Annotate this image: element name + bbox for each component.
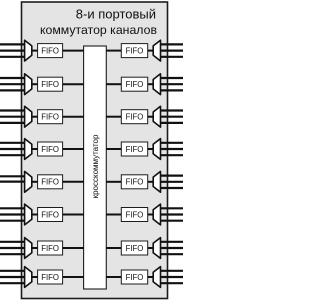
svg-text:FIFO: FIFO (126, 145, 144, 154)
wire FIFO F8b to demux M8b (148, 276, 154, 278)
output demux M3b (right port 3) (153, 106, 160, 127)
output demux M8b (right port 8) (153, 267, 160, 288)
input mux M7a (left port 7) (25, 238, 32, 259)
svg-text:FIFO: FIFO (41, 178, 59, 187)
FIFO F2b (right port 2) (121, 77, 147, 91)
FIFO F1a (left port 1) (38, 44, 63, 58)
FIFO F1b (right port 1) (121, 44, 147, 58)
wire FIFO F1a to crossbar (63, 50, 84, 52)
input mux M3a (left port 3) (25, 106, 32, 127)
svg-text:FIFO: FIFO (126, 46, 144, 55)
FIFO F3a (left port 3) (38, 110, 63, 124)
FIFO F6b (right port 6) (121, 208, 147, 222)
wire mux M7a to FIFO F7a (32, 247, 38, 249)
svg-text:8-и портовый: 8-и портовый (76, 7, 156, 22)
wire crossbar to FIFO F4b (106, 148, 121, 150)
wire FIFO F4a to crossbar (63, 148, 84, 150)
port 3 input lines (left) (0, 111, 25, 123)
wire crossbar to FIFO F8b (106, 276, 121, 278)
input mux M4a (left port 4) (25, 139, 32, 160)
wire crossbar to FIFO F6b (106, 214, 121, 216)
FIFO F5b (right port 5) (121, 175, 147, 189)
svg-text:FIFO: FIFO (126, 113, 144, 122)
wire FIFO F4b to demux M4b (148, 148, 154, 150)
port 1 input lines (left) (0, 44, 25, 56)
wire crossbar to FIFO F7b (106, 247, 121, 249)
output demux M2b (right port 2) (153, 74, 160, 95)
wire FIFO F6b to demux M6b (148, 214, 154, 216)
port 8 input lines (left) (0, 271, 25, 283)
input mux M5a (left port 5) (25, 171, 32, 192)
crossbar switch block U1: кросскоммутатор (84, 46, 107, 289)
port 7 input lines (left) (0, 242, 25, 254)
wire FIFO F7b to demux M7b (148, 247, 154, 249)
wire crossbar to FIFO F2b (106, 83, 121, 85)
wire FIFO F2a to crossbar (63, 83, 84, 85)
input mux M1a (left port 1) (25, 40, 32, 61)
output demux M5b (right port 5) (153, 171, 160, 192)
wire mux M5a to FIFO F5a (32, 181, 38, 183)
port 1 output lines (right) (161, 44, 184, 56)
port 8 output lines (right) (161, 271, 184, 283)
wire FIFO F5b to demux M5b (148, 181, 154, 183)
FIFO F2a (left port 2) (38, 77, 63, 91)
svg-text:FIFO: FIFO (41, 46, 59, 55)
wire mux M1a to FIFO F1a (32, 50, 38, 52)
wire crossbar to FIFO F3b (106, 116, 121, 118)
port 2 input lines (left) (0, 78, 25, 90)
port 2 output lines (right) (161, 78, 184, 90)
port 6 output lines (right) (161, 208, 184, 220)
port 4 output lines (right) (161, 143, 184, 155)
output demux M7b (right port 7) (153, 238, 160, 259)
FIFO F3b (right port 3) (121, 110, 147, 124)
wire mux M2a to FIFO F2a (32, 83, 38, 85)
port 3 output lines (right) (161, 111, 184, 123)
wire crossbar to FIFO F1b (106, 50, 121, 52)
svg-text:FIFO: FIFO (41, 273, 59, 282)
svg-text:коммутатор каналов: коммутатор каналов (40, 23, 157, 37)
port 5 input lines (left) (0, 176, 25, 181)
FIFO F7b (right port 7) (121, 241, 147, 255)
output demux M4b (right port 4) (153, 139, 160, 160)
svg-text:FIFO: FIFO (126, 210, 144, 219)
port 6 input lines (left) (0, 208, 25, 220)
svg-text:FIFO: FIFO (41, 80, 59, 89)
FIFO F4a (left port 4) (38, 142, 63, 156)
svg-text:FIFO: FIFO (126, 244, 144, 253)
wire crossbar to FIFO F5b (106, 181, 121, 183)
svg-text:FIFO: FIFO (41, 210, 59, 219)
output demux M1b (right port 1) (153, 40, 160, 61)
svg-text:FIFO: FIFO (41, 244, 59, 253)
wire mux M3a to FIFO F3a (32, 116, 38, 118)
svg-text:FIFO: FIFO (126, 178, 144, 187)
svg-text:FIFO: FIFO (41, 113, 59, 122)
wire FIFO F7a to crossbar (63, 247, 84, 249)
svg-text:FIFO: FIFO (126, 80, 144, 89)
wire FIFO F8a to crossbar (63, 276, 84, 278)
svg-text:FIFO: FIFO (126, 273, 144, 282)
wire FIFO F3b to demux M3b (148, 116, 154, 118)
FIFO F6a (left port 6) (38, 208, 63, 222)
wire mux M4a to FIFO F4a (32, 148, 38, 150)
wire mux M6a to FIFO F6a (32, 214, 38, 216)
port 5 output lines (right) (161, 176, 184, 188)
FIFO F8b (right port 8) (121, 270, 147, 284)
port 4 input lines (left) (0, 143, 25, 155)
input mux M6a (left port 6) (25, 204, 32, 225)
wire FIFO F1b to demux M1b (148, 50, 154, 52)
output demux M6b (right port 6) (153, 204, 160, 225)
main enclosure box: 8-port channel switch (22, 2, 168, 299)
svg-text:кросскоммутатор: кросскоммутатор (91, 134, 100, 198)
FIFO F8a (left port 8) (38, 270, 63, 284)
wire mux M8a to FIFO F8a (32, 276, 38, 278)
wire FIFO F2b to demux M2b (148, 83, 154, 85)
wire FIFO F6a to crossbar (63, 214, 84, 216)
FIFO F7a (left port 7) (38, 241, 63, 255)
input mux M2a (left port 2) (25, 74, 32, 95)
FIFO F5a (left port 5) (38, 175, 63, 189)
svg-text:FIFO: FIFO (41, 145, 59, 154)
port 7 output lines (right) (161, 242, 184, 254)
input mux M8a (left port 8) (25, 267, 32, 288)
wire FIFO F5a to crossbar (63, 181, 84, 183)
wire FIFO F3a to crossbar (63, 116, 84, 118)
FIFO F4b (right port 4) (121, 142, 147, 156)
